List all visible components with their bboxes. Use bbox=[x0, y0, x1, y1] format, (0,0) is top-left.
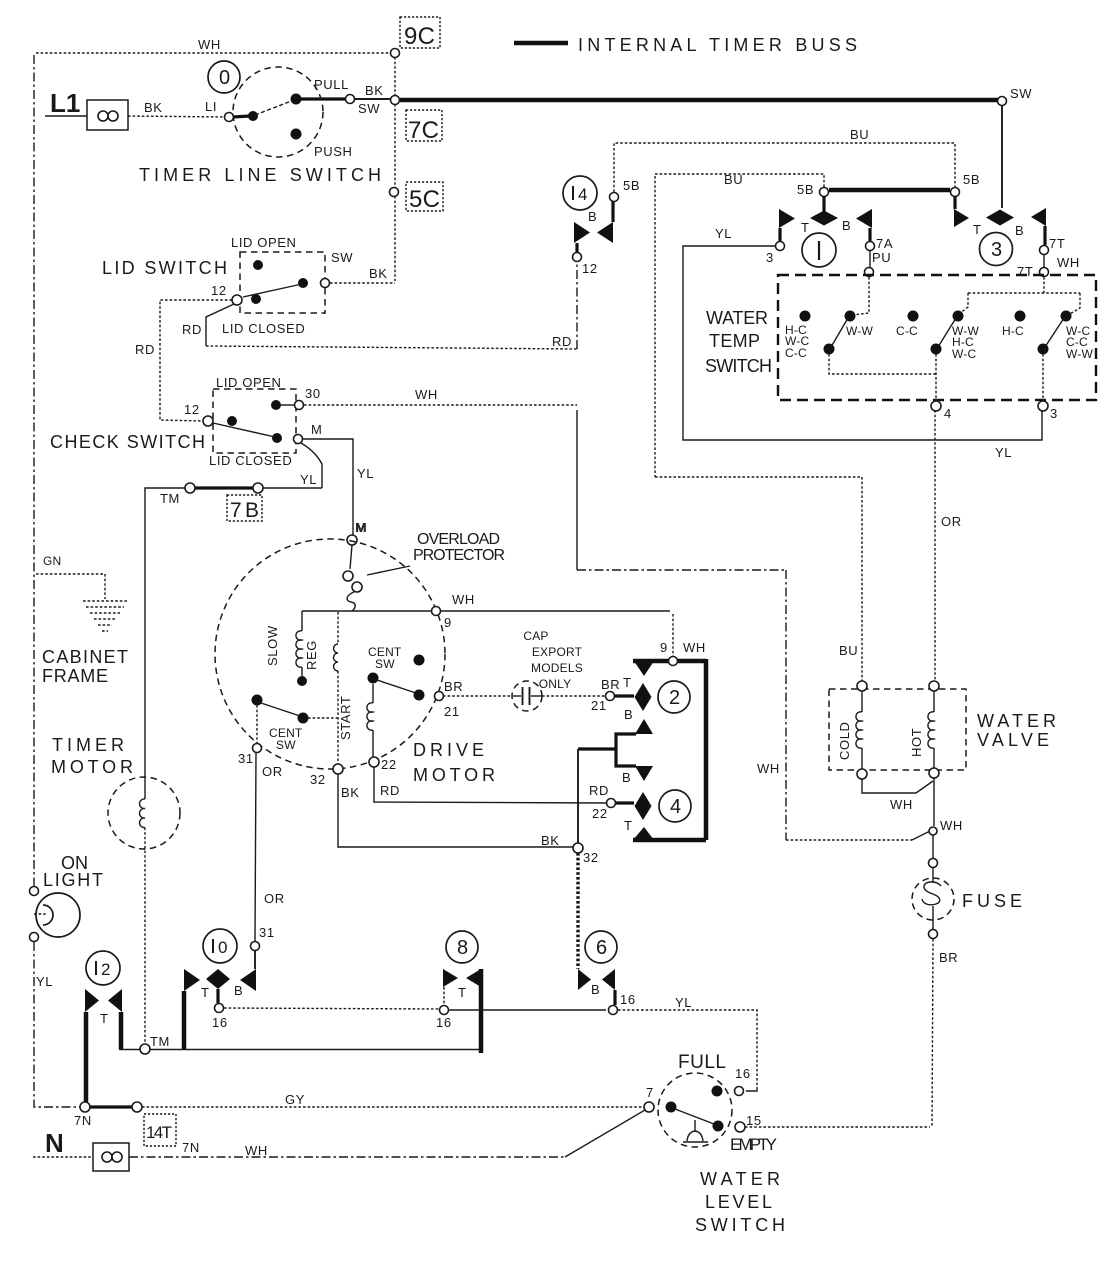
svg-text:OR: OR bbox=[264, 891, 285, 906]
svg-text:LID CLOSED: LID CLOSED bbox=[209, 453, 292, 468]
svg-text:9: 9 bbox=[444, 615, 452, 630]
svg-text:HOT: HOT bbox=[909, 728, 924, 757]
svg-text:REG: REG bbox=[304, 640, 319, 670]
svg-text:3: 3 bbox=[991, 239, 1002, 261]
svg-text:SW: SW bbox=[358, 101, 380, 116]
svg-text:3: 3 bbox=[766, 250, 774, 265]
svg-text:9: 9 bbox=[660, 640, 668, 655]
svg-text:W-C: W-C bbox=[952, 347, 977, 361]
svg-text:RD: RD bbox=[135, 342, 155, 357]
svg-text:SW: SW bbox=[276, 738, 296, 752]
svg-text:T: T bbox=[623, 675, 632, 690]
svg-text:16: 16 bbox=[212, 1015, 228, 1030]
svg-text:YL: YL bbox=[357, 466, 374, 481]
svg-text:C-C: C-C bbox=[785, 346, 807, 360]
svg-text:7N: 7N bbox=[74, 1113, 92, 1128]
svg-text:LID OPEN: LID OPEN bbox=[216, 375, 281, 390]
svg-text:30: 30 bbox=[305, 386, 321, 401]
svg-text:TM: TM bbox=[160, 491, 180, 506]
svg-text:M: M bbox=[311, 422, 322, 437]
svg-text:YL: YL bbox=[36, 974, 53, 989]
svg-text:YL: YL bbox=[675, 995, 692, 1010]
svg-text:SLOW: SLOW bbox=[265, 625, 280, 666]
svg-text:0: 0 bbox=[219, 67, 230, 89]
svg-text:B: B bbox=[234, 983, 243, 998]
svg-text:N: N bbox=[45, 1128, 64, 1158]
svg-text:WH: WH bbox=[757, 761, 780, 776]
svg-text:WH: WH bbox=[1057, 255, 1080, 270]
svg-text:RD: RD bbox=[380, 783, 400, 798]
svg-text:WH: WH bbox=[940, 818, 963, 833]
svg-text:7A: 7A bbox=[876, 236, 893, 251]
svg-text:15: 15 bbox=[746, 1113, 762, 1128]
svg-text:SW: SW bbox=[331, 250, 353, 265]
svg-text:WH: WH bbox=[683, 640, 706, 655]
svg-text:YL: YL bbox=[995, 445, 1012, 460]
svg-text:W-W: W-W bbox=[846, 324, 874, 338]
svg-text:MOTOR: MOTOR bbox=[51, 757, 133, 777]
svg-text:WH: WH bbox=[245, 1143, 268, 1158]
svg-text:14T: 14T bbox=[146, 1123, 172, 1142]
svg-text:BR: BR bbox=[444, 679, 463, 694]
svg-text:16: 16 bbox=[620, 992, 636, 1007]
svg-text:START: START bbox=[338, 696, 353, 740]
svg-text:7T: 7T bbox=[1017, 264, 1033, 279]
svg-text:B: B bbox=[842, 218, 851, 233]
svg-text:12: 12 bbox=[211, 283, 227, 298]
svg-text:5B: 5B bbox=[623, 178, 640, 193]
svg-text:12: 12 bbox=[184, 402, 200, 417]
svg-text:COLD: COLD bbox=[837, 721, 852, 760]
svg-text:OVERLOAD: OVERLOAD bbox=[417, 531, 500, 548]
svg-text:INTERNAL TIMER BUSS: INTERNAL TIMER BUSS bbox=[578, 35, 857, 55]
svg-text:B: B bbox=[1015, 223, 1024, 238]
svg-text:5C: 5C bbox=[409, 186, 441, 213]
svg-text:M: M bbox=[356, 520, 367, 535]
svg-text:32: 32 bbox=[310, 772, 326, 787]
svg-text:SW: SW bbox=[375, 657, 395, 671]
svg-text:4: 4 bbox=[578, 185, 587, 204]
svg-text:LID CLOSED: LID CLOSED bbox=[222, 321, 305, 336]
svg-text:B: B bbox=[591, 982, 600, 997]
svg-text:WH: WH bbox=[452, 592, 475, 607]
svg-text:BU: BU bbox=[839, 643, 858, 658]
svg-text:BK: BK bbox=[541, 833, 560, 848]
svg-text:BK: BK bbox=[341, 785, 360, 800]
svg-text:B: B bbox=[622, 770, 631, 785]
svg-text:DRIVE: DRIVE bbox=[413, 740, 484, 760]
svg-text:2: 2 bbox=[101, 960, 110, 979]
svg-text:5B: 5B bbox=[797, 182, 814, 197]
svg-text:WATER: WATER bbox=[977, 711, 1056, 731]
svg-text:BK: BK bbox=[369, 266, 388, 281]
svg-text:T: T bbox=[458, 985, 467, 1000]
svg-text:4: 4 bbox=[944, 406, 952, 421]
svg-text:RD: RD bbox=[552, 334, 572, 349]
svg-text:B: B bbox=[588, 209, 597, 224]
svg-text:CAP: CAP bbox=[523, 629, 548, 643]
svg-text:T: T bbox=[624, 818, 633, 833]
svg-text:ONLY: ONLY bbox=[539, 677, 572, 691]
svg-text:WH: WH bbox=[415, 387, 438, 402]
svg-text:BK: BK bbox=[144, 100, 163, 115]
svg-text:PULL: PULL bbox=[314, 77, 349, 92]
svg-text:22: 22 bbox=[381, 757, 397, 772]
svg-text:BK: BK bbox=[365, 83, 384, 98]
svg-text:T: T bbox=[201, 985, 210, 1000]
svg-text:TEMP: TEMP bbox=[709, 331, 760, 351]
svg-text:OR: OR bbox=[262, 764, 283, 779]
svg-text:MOTOR: MOTOR bbox=[413, 765, 495, 785]
svg-text:WATER: WATER bbox=[706, 308, 768, 328]
svg-text:L1: L1 bbox=[50, 88, 80, 118]
svg-text:MODELS: MODELS bbox=[531, 661, 583, 675]
svg-text:PUSH: PUSH bbox=[314, 144, 353, 159]
svg-text:YL: YL bbox=[715, 226, 732, 241]
svg-text:4: 4 bbox=[670, 796, 681, 818]
svg-text:16: 16 bbox=[436, 1015, 452, 1030]
svg-text:TIMER: TIMER bbox=[52, 735, 124, 755]
svg-text:FRAME: FRAME bbox=[42, 666, 108, 686]
svg-text:7N: 7N bbox=[182, 1140, 200, 1155]
svg-text:7C: 7C bbox=[408, 117, 440, 144]
svg-text:16: 16 bbox=[735, 1066, 751, 1081]
svg-text:PROTECTOR: PROTECTOR bbox=[413, 547, 505, 564]
svg-text:7: 7 bbox=[646, 1085, 654, 1100]
svg-text:EXPORT: EXPORT bbox=[532, 645, 583, 659]
svg-text:7T: 7T bbox=[1049, 236, 1065, 251]
svg-text:EMPTY: EMPTY bbox=[730, 1135, 777, 1154]
svg-text:T: T bbox=[801, 220, 810, 235]
svg-text:YL: YL bbox=[300, 472, 317, 487]
svg-text:OR: OR bbox=[941, 514, 962, 529]
svg-text:9C: 9C bbox=[404, 23, 436, 50]
svg-text:2: 2 bbox=[669, 687, 680, 709]
svg-text:21: 21 bbox=[444, 704, 460, 719]
svg-text:12: 12 bbox=[582, 261, 598, 276]
svg-text:TM: TM bbox=[150, 1034, 170, 1049]
svg-text:C-C: C-C bbox=[896, 324, 918, 338]
svg-text:8: 8 bbox=[457, 937, 468, 959]
svg-text:BR: BR bbox=[939, 950, 958, 965]
svg-text:LI: LI bbox=[205, 99, 217, 114]
svg-text:31: 31 bbox=[259, 925, 275, 940]
svg-text:RD: RD bbox=[589, 783, 609, 798]
svg-text:SW: SW bbox=[1010, 86, 1032, 101]
svg-text:5B: 5B bbox=[963, 172, 980, 187]
svg-text:LID SWITCH: LID SWITCH bbox=[102, 258, 227, 278]
svg-text:RD: RD bbox=[182, 322, 202, 337]
svg-text:H-C: H-C bbox=[1002, 324, 1024, 338]
svg-text:B: B bbox=[624, 707, 633, 722]
svg-text:GN: GN bbox=[43, 554, 61, 568]
svg-text:WATER: WATER bbox=[700, 1169, 780, 1189]
svg-text:7B: 7B bbox=[230, 499, 259, 522]
svg-text:LID OPEN: LID OPEN bbox=[231, 235, 296, 250]
svg-text:21: 21 bbox=[591, 698, 607, 713]
svg-text:BR: BR bbox=[601, 677, 620, 692]
svg-text:6: 6 bbox=[596, 937, 607, 959]
svg-text:CHECK SWITCH: CHECK SWITCH bbox=[50, 432, 205, 452]
svg-text:T: T bbox=[973, 222, 982, 237]
svg-text:W-W: W-W bbox=[1066, 347, 1094, 361]
svg-text:0: 0 bbox=[218, 938, 227, 957]
svg-text:LIGHT: LIGHT bbox=[43, 870, 103, 890]
svg-text:WH: WH bbox=[890, 797, 913, 812]
svg-text:BU: BU bbox=[724, 172, 743, 187]
svg-text:TIMER LINE SWITCH: TIMER LINE SWITCH bbox=[139, 165, 381, 185]
svg-text:PU: PU bbox=[872, 250, 891, 265]
svg-text:BU: BU bbox=[850, 127, 869, 142]
svg-text:3: 3 bbox=[1050, 406, 1058, 421]
svg-text:T: T bbox=[100, 1011, 109, 1026]
svg-text:SWITCH: SWITCH bbox=[705, 356, 772, 376]
svg-text:WH: WH bbox=[198, 37, 221, 52]
svg-text:22: 22 bbox=[592, 806, 608, 821]
svg-text:31: 31 bbox=[238, 751, 254, 766]
svg-text:FULL: FULL bbox=[678, 1052, 726, 1073]
svg-text:32: 32 bbox=[583, 850, 599, 865]
svg-text:CABINET: CABINET bbox=[42, 647, 128, 667]
svg-text:GY: GY bbox=[285, 1092, 305, 1107]
